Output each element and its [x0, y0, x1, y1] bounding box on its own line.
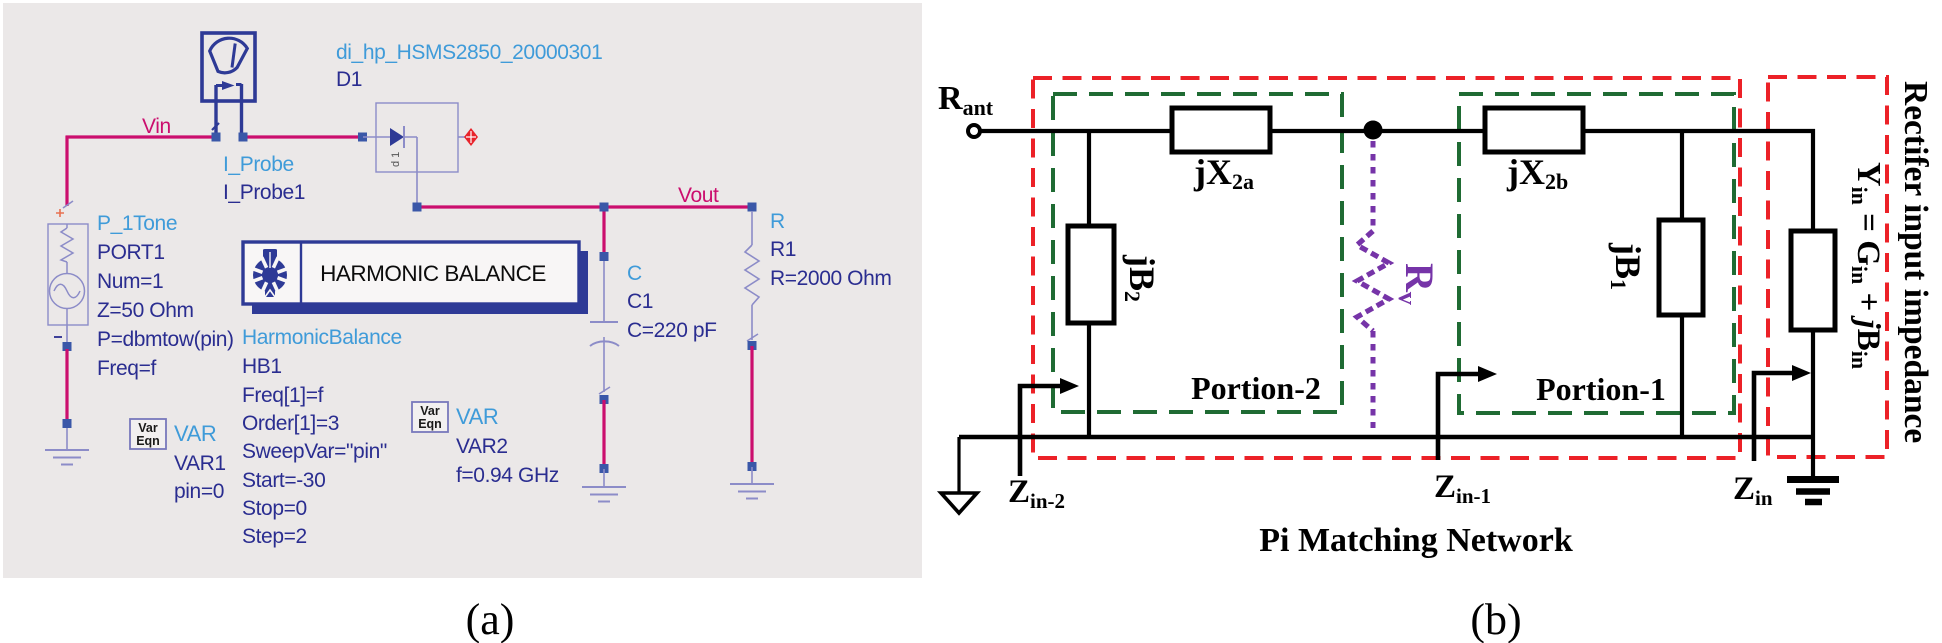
harmonic balance gear icon	[252, 245, 289, 297]
VAR2 VarEqn box	[412, 402, 448, 432]
wire R1 ground stub	[751, 467, 753, 483]
label Zin-1	[1434, 469, 1491, 508]
I_Probe arrow symbol	[216, 81, 242, 90]
wire jB1 branch upper	[1680, 129, 1684, 220]
svg-text:(a): (a)	[466, 595, 515, 643]
node diode anode	[358, 133, 367, 142]
source P_1Tone plus mark	[56, 209, 64, 217]
red dashed box: rectifier input impedance	[1768, 77, 1887, 457]
svg-text:C=220 pF: C=220 pF	[627, 319, 717, 342]
svg-text:Rant: Rant	[938, 80, 994, 120]
arrow open triangle (antenna reference)	[941, 493, 977, 513]
svg-text:VAR: VAR	[174, 421, 216, 446]
svg-text:Zin-2: Zin-2	[1008, 474, 1065, 513]
component jB2	[1068, 226, 1114, 323]
svg-text:PORT1: PORT1	[97, 241, 165, 264]
label C	[627, 262, 642, 285]
wire C to ground	[602, 400, 605, 468]
label P=dbmtow(pin)	[97, 328, 234, 351]
svg-text:Rv: Rv	[1393, 263, 1442, 305]
label VAR (VAR1)	[174, 421, 216, 446]
label Stop=0	[242, 497, 307, 520]
harmonic balance banner shadow	[252, 251, 588, 314]
resistor R1 symbol	[745, 211, 759, 341]
harmonic balance banner box	[243, 242, 579, 304]
svg-text:HarmonicBalance: HarmonicBalance	[242, 326, 402, 349]
label pin=0	[174, 480, 224, 503]
label Zin	[1733, 471, 1773, 510]
svg-text:C: C	[627, 262, 642, 285]
green dashed box: Portion-2	[1053, 94, 1342, 412]
wire jB2 branch lower	[1087, 323, 1091, 439]
svg-text:R: R	[770, 210, 785, 233]
wire left antenna down lead	[957, 437, 960, 493]
resistor Rv purple dashed	[1357, 141, 1389, 428]
wire source to ground	[65, 349, 68, 423]
node source bottom	[63, 342, 72, 351]
wire R1 to ground	[750, 346, 753, 466]
label HB1	[242, 355, 282, 378]
label Freq=f	[97, 357, 156, 380]
svg-text:HARMONIC BALANCE: HARMONIC BALANCE	[320, 261, 546, 286]
node R1 ground pin	[748, 462, 757, 471]
svg-text:(b): (b)	[1470, 595, 1521, 643]
label Zin-2	[1008, 474, 1065, 513]
wire ground bus	[959, 435, 1815, 440]
wire rectifier branch upper	[1811, 129, 1815, 231]
label I_Probe	[223, 153, 294, 176]
svg-text:Zin-1: Zin-1	[1434, 469, 1491, 508]
label I_Probe1	[223, 181, 305, 204]
green dashed box: Portion-1	[1459, 94, 1734, 413]
label Order[1]=3	[242, 412, 339, 435]
wire diode anode lead	[363, 136, 390, 138]
label Step=2	[242, 525, 307, 548]
label Z=50 Ohm	[97, 299, 194, 322]
svg-text:Step=2: Step=2	[242, 525, 307, 548]
svg-text:Num=1: Num=1	[97, 270, 163, 293]
component jX2a	[1172, 108, 1270, 152]
svg-text:Z=50 Ohm: Z=50 Ohm	[97, 299, 194, 322]
svg-text:Vin: Vin	[142, 115, 171, 138]
svg-text:Start=-30: Start=-30	[242, 469, 325, 492]
wire jB2 branch upper	[1087, 129, 1091, 226]
ground (R1)	[730, 484, 774, 499]
label R=2000 Ohm	[770, 267, 892, 290]
source P_1Tone pin slash	[63, 201, 73, 208]
svg-text:Pi Matching Network: Pi Matching Network	[1259, 522, 1573, 559]
label Yin = Gin + jBin rotated	[1847, 162, 1887, 369]
svg-text:pin=0: pin=0	[174, 480, 224, 503]
red dashed box: Pi matching network	[1033, 78, 1740, 458]
ground (C1)	[582, 487, 626, 502]
node probe pin 1	[212, 133, 221, 142]
label Rectifer input impedance rotated	[1897, 81, 1934, 443]
svg-text:Vout: Vout	[678, 184, 719, 207]
svg-text:Var: Var	[420, 404, 440, 418]
capacitor C1 symbol	[590, 261, 619, 394]
ammeter I_Probe body	[202, 33, 255, 101]
svg-text:HB1: HB1	[242, 355, 282, 378]
label C1	[627, 290, 653, 313]
svg-text:f=0.94 GHz: f=0.94 GHz	[456, 464, 559, 487]
arrow Zin-2	[1020, 378, 1079, 476]
svg-text:Zin: Zin	[1733, 471, 1773, 510]
svg-text:d 1: d 1	[390, 152, 402, 167]
resistor R1 branch: node on Vout wire	[748, 203, 757, 212]
panel (a) background	[3, 3, 922, 578]
caption (b)	[1470, 595, 1521, 643]
svg-text:VAR1: VAR1	[174, 452, 226, 475]
label Rv	[1393, 263, 1442, 305]
label SweepVar="pin"	[242, 440, 387, 463]
node Vin label	[142, 115, 171, 138]
svg-text:Freq=f: Freq=f	[97, 357, 156, 380]
diode D1 body box	[376, 103, 458, 172]
wire Vin horizontal left segment	[66, 135, 217, 138]
svg-text:Stop=0: Stop=0	[242, 497, 307, 520]
label VAR1	[174, 452, 226, 475]
label C=220 pF	[627, 319, 717, 342]
node probe pin 2	[239, 133, 248, 142]
svg-text:P_1Tone: P_1Tone	[97, 212, 177, 235]
svg-text:VAR: VAR	[456, 404, 498, 429]
label P_1Tone	[97, 212, 177, 235]
label Start=-30	[242, 469, 325, 492]
label Num=1	[97, 270, 163, 293]
arrow Zin	[1754, 365, 1811, 461]
label R_ant	[938, 80, 994, 120]
label jX2b	[1506, 152, 1568, 194]
node diode output	[413, 203, 422, 212]
capacitor C1 branch: wire upper	[602, 207, 605, 256]
ground symbol right	[1787, 437, 1839, 502]
wire Vout horizontal	[417, 205, 752, 208]
label jB2	[1120, 254, 1162, 302]
svg-text:R1: R1	[770, 238, 796, 261]
node C ground pin	[600, 464, 609, 473]
wire source lower lead	[66, 325, 68, 346]
svg-text:jB1: jB1	[1606, 242, 1648, 290]
label jB1	[1606, 242, 1648, 290]
label VAR2	[456, 435, 508, 458]
svg-text:R=2000 Ohm: R=2000 Ohm	[770, 267, 892, 290]
node C upper pin	[600, 252, 609, 261]
label R1	[770, 238, 796, 261]
source P_1Tone body	[48, 224, 88, 325]
svg-text:D1: D1	[336, 68, 362, 91]
wire C ground stub	[603, 469, 605, 486]
wire top rail	[980, 129, 1815, 133]
node C lower pin	[600, 395, 609, 404]
wire Vin vertical (source to corner)	[65, 136, 68, 206]
svg-text:Yin = Gin + jBin: Yin = Gin + jBin	[1847, 162, 1887, 369]
svg-text:SweepVar="pin": SweepVar="pin"	[242, 440, 387, 463]
svg-text:di_hp_HSMS2850_20000301: di_hp_HSMS2850_20000301	[336, 41, 602, 64]
svg-text:Eqn: Eqn	[418, 417, 442, 431]
wire ground stub	[66, 428, 68, 449]
I_Probe legs	[212, 84, 242, 134]
label VAR (VAR2)	[456, 404, 498, 429]
diode cathode bar	[403, 126, 405, 148]
label Portion-2	[1191, 370, 1321, 406]
arrow Zin-1	[1438, 366, 1497, 460]
label f=0.94 GHz	[456, 464, 559, 487]
source minus mark	[54, 336, 62, 338]
svg-text:VAR2: VAR2	[456, 435, 508, 458]
wire rectifier branch lower	[1811, 330, 1815, 437]
svg-text:jB2: jB2	[1120, 254, 1162, 302]
svg-text:Portion-2: Portion-2	[1191, 370, 1321, 406]
svg-text:Rectifer input impedance: Rectifer input impedance	[1897, 81, 1934, 443]
svg-text:P=dbmtow(pin): P=dbmtow(pin)	[97, 328, 234, 351]
label R	[770, 210, 785, 233]
label d 1 rotated	[390, 152, 402, 167]
node R1 lower pin	[748, 341, 757, 350]
component jX2b	[1485, 108, 1583, 152]
svg-text:C1: C1	[627, 290, 653, 313]
label Pi Matching Network	[1259, 522, 1573, 559]
node red diamond pin	[464, 128, 478, 146]
component jB1	[1659, 220, 1703, 315]
wire diode to pin marker	[458, 136, 465, 138]
svg-text:jX2a: jX2a	[1193, 152, 1254, 194]
label Portion-1	[1536, 371, 1666, 407]
wire jB1 branch lower	[1680, 315, 1684, 439]
wire Vin horizontal right segment (probe to diode)	[243, 135, 362, 138]
svg-text:I_Probe: I_Probe	[223, 153, 294, 176]
svg-text:jX2b: jX2b	[1506, 152, 1568, 194]
label PORT1	[97, 241, 165, 264]
label jX2a	[1193, 152, 1254, 194]
label di_hp_HSMS2850_20000301	[336, 41, 602, 64]
node junction dot	[1364, 121, 1383, 140]
svg-text:Order[1]=3: Order[1]=3	[242, 412, 339, 435]
svg-text:Portion-1: Portion-1	[1536, 371, 1666, 407]
node source ground pin	[63, 419, 72, 428]
label Vout	[678, 184, 719, 207]
caption (a)	[466, 595, 515, 643]
node C top on Vout wire	[600, 203, 609, 212]
wire diode cathode lead down	[404, 137, 417, 204]
label HarmonicBalance	[242, 326, 402, 349]
ground (source)	[45, 450, 89, 465]
label D1	[336, 68, 362, 91]
svg-text:Eqn: Eqn	[136, 434, 160, 448]
label Freq[1]=f	[242, 384, 324, 407]
diode triangle	[390, 128, 404, 146]
terminal Rant	[968, 125, 980, 137]
svg-text:Var: Var	[138, 421, 158, 435]
component rectifier input impedance	[1791, 231, 1835, 330]
label HARMONIC BALANCE	[320, 261, 546, 286]
svg-text:Freq[1]=f: Freq[1]=f	[242, 384, 324, 407]
VAR1 VarEqn box	[130, 419, 166, 449]
svg-text:I_Probe1: I_Probe1	[223, 181, 305, 204]
